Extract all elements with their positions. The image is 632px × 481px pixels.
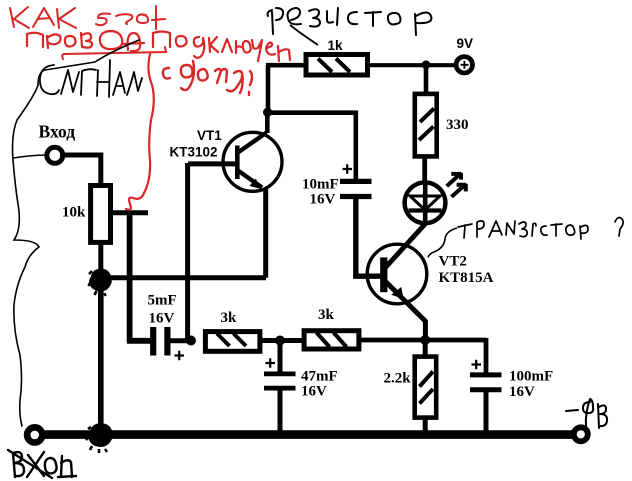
plus of 47mF	[266, 358, 276, 368]
svg-text:5mF: 5mF	[148, 293, 177, 309]
annotation black text SIGNAL	[40, 60, 142, 97]
annotation black text Rezistor	[268, 8, 432, 35]
node junction 5mF/3k	[186, 336, 196, 346]
svg-text:16V: 16V	[310, 192, 336, 208]
terminal input	[47, 147, 63, 163]
wire 330 to LED	[422, 156, 427, 181]
annotation black pointer to 1k	[290, 25, 318, 45]
wire 10k bottom to blob	[98, 241, 103, 285]
wire 2.2k to rail	[423, 418, 428, 431]
svg-text:16V: 16V	[301, 384, 327, 400]
annotation red text provod podkluchen	[27, 31, 290, 61]
node junction collector VT1	[263, 108, 272, 117]
wire 10mF down to VT2 base	[354, 198, 383, 279]
wire 3k to 3k	[262, 338, 302, 343]
bottom rail	[33, 430, 581, 439]
wire VT1 base vertical	[185, 163, 190, 341]
resistor R 1k	[306, 55, 368, 76]
svg-text:16V: 16V	[509, 384, 535, 400]
annotation black pointer to VT2	[428, 228, 457, 258]
svg-text:Вход: Вход	[39, 122, 76, 142]
node junction 47mF	[275, 336, 285, 346]
node junction 9V	[422, 60, 431, 69]
transistor VT2 KT815A	[367, 244, 427, 304]
svg-text:330: 330	[446, 117, 469, 133]
resistor R 3k (second)	[304, 331, 359, 349]
wire VT1 collector up	[265, 112, 270, 133]
svg-text:10mF: 10mF	[302, 177, 339, 193]
svg-text:KT815A: KT815A	[439, 270, 494, 286]
terminal bottom-right	[574, 427, 588, 441]
capacitor C 10mF wiring	[268, 111, 356, 181]
node junction VT2 emitter	[420, 335, 430, 345]
annotation red text KAK etot	[10, 6, 165, 29]
plus of 5mF	[175, 351, 185, 361]
svg-text:3k: 3k	[318, 307, 335, 323]
resistor R 330	[415, 94, 437, 156]
capacitor C 100mF	[470, 375, 502, 390]
svg-text:3k: 3k	[221, 310, 238, 326]
wire 1k left leg	[266, 65, 305, 114]
svg-text:47mF: 47mF	[301, 369, 338, 385]
plus of 10mF	[343, 164, 353, 174]
svg-text:2.2k: 2.2k	[384, 371, 412, 387]
annotation red text s bolu	[163, 61, 252, 95]
resistor R 2.2k	[415, 357, 437, 418]
node blob left	[89, 270, 111, 296]
annotation black text -9v (bottom-right)	[566, 399, 607, 428]
svg-text:KT3102: KT3102	[170, 145, 218, 160]
svg-text:100mF: 100mF	[509, 369, 553, 385]
capacitor C 5mF	[153, 327, 167, 356]
wire 5mF to junction	[170, 338, 192, 343]
svg-text:9V: 9V	[457, 36, 474, 51]
resistor R 10k	[91, 186, 111, 243]
wire junction down to 47mF	[278, 341, 283, 373]
svg-text:10k: 10k	[62, 205, 86, 221]
LED arrows	[447, 173, 461, 186]
LED D1	[405, 182, 446, 223]
terminal bottom-left	[27, 427, 42, 442]
svg-text:16V: 16V	[149, 311, 175, 327]
wire 9V junction down to 330	[424, 65, 429, 94]
wire junction to 2.2k	[423, 340, 428, 355]
wire stub right of 10k	[113, 210, 148, 215]
plus of 100mF	[472, 360, 482, 370]
wire 47mF to rail	[278, 390, 283, 431]
annotation red pointer line	[126, 54, 154, 210]
capacitor C 47mF	[264, 374, 296, 388]
annotation black text tranzistor	[458, 218, 623, 239]
annotation black signal curve	[13, 40, 140, 426]
wire VT1 emitter down and left	[98, 188, 266, 278]
capacitor C 10mF	[340, 181, 372, 196]
wire 3k2 to emitter junction and 100mF corner	[359, 338, 486, 373]
node blob rail	[86, 425, 111, 454]
terminal 9V	[456, 57, 472, 73]
resistor R 3k (first)	[205, 332, 260, 352]
wire blob to rail	[98, 280, 104, 431]
wire 1k to 9V	[367, 63, 455, 67]
wire input to 10k	[60, 153, 103, 185]
svg-text:VT2: VT2	[439, 254, 467, 270]
transistor VT1 KT3102	[223, 132, 282, 191]
annotation red underline	[62, 47, 166, 59]
svg-text:1k: 1k	[328, 38, 344, 53]
wire 100mF to rail	[484, 392, 489, 431]
annotation thin line touching input	[14, 155, 46, 158]
annotation black text VXOD (bottom-left)	[8, 450, 76, 478]
svg-text:VT1: VT1	[197, 128, 222, 143]
wire stub down to 5mF	[127, 213, 152, 342]
